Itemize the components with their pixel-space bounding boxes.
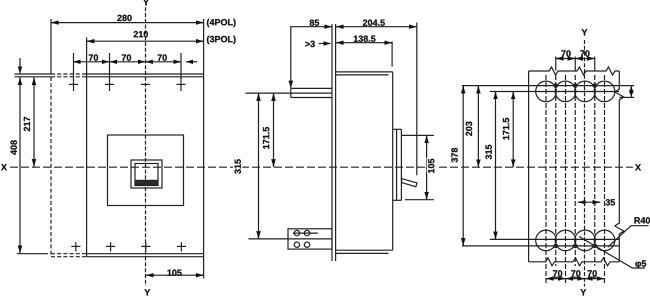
rear view: terminal circle R40 top 4 — [594, 81, 615, 102]
dim 70 bottom line — [546, 278, 605, 280]
rear view: terminal circle R40 top 1 — [536, 81, 557, 102]
label Y top rear — [582, 29, 588, 35]
dim 315 (rear) line — [495, 92, 497, 240]
label Y bottom rear — [580, 289, 586, 295]
dim 105 (side) line — [426, 135, 428, 199]
dim text 70 c — [158, 54, 167, 60]
front view: handle opening inner rect — [135, 164, 158, 186]
side view: terminal cover — [396, 129, 398, 200]
rear view: mounting hole dashed lines — [555, 75, 557, 266]
dim 408 bottom extension line — [17, 253, 48, 255]
label X right — [635, 164, 641, 170]
dim text >3 — [305, 41, 315, 47]
rear view: pole center dashed lines — [545, 75, 547, 285]
rear view: terminal circle R40 bottom 2 — [555, 230, 576, 251]
dim 70 top ticks — [555, 57, 557, 71]
label (4POL) — [207, 19, 236, 27]
dim >3 arrow — [319, 43, 331, 45]
side view: body front face — [392, 72, 394, 250]
dim text 70 rear bottom b — [571, 270, 580, 276]
front view: handle opening outer rect — [131, 160, 162, 188]
dim 203 line — [477, 86, 479, 168]
front view: top mounting strip left extension (4POL terminal strip) — [14, 73, 51, 75]
dim 85 left corner extension with down arrow — [290, 27, 292, 88]
dim 70 top lines — [556, 58, 595, 60]
dim text 408 — [11, 140, 17, 155]
front view: pole extension line P2 — [109, 53, 111, 91]
dim text 70 a — [89, 54, 98, 60]
dim text 210 — [134, 31, 148, 37]
label Y bottom front — [144, 289, 150, 295]
front view: bottom screw crosses — [75, 242, 77, 251]
dim 408 line — [19, 77, 21, 253]
rear view: terminal circle R40 bottom 3 — [575, 230, 596, 251]
label Y top front — [143, 0, 149, 5]
rear view: top center row line (315 extension) — [490, 91, 620, 93]
side view: body top edge — [336, 71, 393, 73]
dim 171.5 (side) line — [273, 93, 275, 167]
front view: top screw cross bars — [69, 83, 78, 85]
dim text 171.5 rear — [503, 118, 509, 140]
rear view: mounting hole dots top — [554, 84, 557, 87]
dim text 85 — [310, 20, 319, 26]
dim text 280 — [117, 15, 131, 21]
rear view: bottom center row line (315 extension) — [490, 238, 620, 240]
front view: bottom edge dashed (4th pole) — [51, 253, 87, 255]
dim text 70 rear top b — [580, 50, 589, 56]
front view: left edge of 3-pole body — [86, 77, 88, 257]
bracket hole 4 — [304, 242, 309, 247]
dim 210 line — [87, 40, 204, 42]
rear view: left edge — [528, 71, 530, 262]
rear view: bottom edge with break marks — [529, 258, 620, 266]
dim text 70 rear bottom c — [588, 270, 597, 276]
rear view: terminal circle R40 bottom 4 — [594, 230, 615, 251]
front view: top edge dashed (4th pole section) — [51, 73, 87, 75]
dim text 171.5 side — [263, 127, 269, 149]
side view: panel plate double line — [331, 24, 333, 261]
rear view: mounting hole dots bottom — [554, 244, 557, 247]
dim 35 line (outside arrows) — [578, 201, 600, 203]
dim 70 lines (pole pitch) — [73, 61, 181, 63]
label phi5 — [635, 260, 646, 268]
bracket hole 3 — [294, 242, 299, 247]
rear view Y axis dashed center line — [584, 40, 586, 287]
dim text 35 — [606, 199, 616, 205]
front view: right edge with dimension extensions — [203, 19, 205, 279]
rear view: terminal strip lower edge right — [619, 96, 634, 98]
rear view: terminal circle R40 top 2 — [555, 81, 576, 102]
dim 408 top outside arrow — [19, 58, 21, 73]
dim text 70 rear bottom a — [553, 270, 562, 276]
dim text 204.5 — [363, 20, 385, 26]
bracket hole 1 — [294, 230, 299, 235]
dim text 378 — [451, 148, 457, 163]
label X left — [1, 164, 7, 170]
dim text 315 rear — [485, 145, 491, 160]
dim 85 line — [290, 26, 332, 28]
front view: pole extension line P1 — [73, 53, 75, 91]
dim 315 (side) line — [258, 93, 260, 239]
dim 70 bottom underlines — [553, 276, 563, 278]
dim 138.5 line — [336, 42, 393, 44]
X axis dashed center line — [10, 166, 633, 168]
R40 leader line — [608, 226, 649, 247]
dim 210 extension line left — [86, 37, 88, 76]
rear view: right edge with break marks — [615, 71, 624, 262]
front view: pole extension line P4 — [180, 53, 182, 91]
front view: escutcheon plate rectangle — [108, 135, 184, 206]
dim text 70 rear top a — [561, 50, 570, 56]
front view Y axis dashed center line — [145, 7, 147, 286]
bracket mid extension line — [249, 238, 333, 240]
phi5 leader line — [579, 237, 645, 269]
dim 204.5 extension line — [416, 23, 418, 176]
rear view: terminal circle R40 top 3 — [575, 81, 596, 102]
side view: handle escutcheon slab — [291, 87, 332, 89]
stray outside arrow right of P4 — [186, 61, 197, 63]
front view: top edge solid (3 pole body) — [87, 73, 204, 75]
dim 138.5 extension line — [391, 42, 393, 67]
side view: mounting bracket — [288, 229, 332, 249]
dim text 70 b — [122, 54, 131, 60]
front view: handle bar (filled) — [135, 180, 157, 185]
dim 204.5 line — [336, 26, 417, 28]
dim text 138.5 — [354, 36, 376, 42]
rear view: bottom hole row line (378 extension) — [462, 245, 619, 247]
side view: terminal screw tab — [401, 179, 417, 187]
rear view: top edge with break marks — [529, 67, 620, 75]
rear view: top hole row line (378 extension) — [462, 85, 634, 87]
dim 217 line — [33, 77, 35, 167]
dim 378 line — [462, 86, 464, 246]
front view: dashed left edge of 4th pole — [50, 77, 52, 257]
bracket slot line — [293, 232, 318, 234]
dim text 105 side — [428, 159, 434, 173]
dim 105 (front bottom) line — [146, 274, 204, 276]
rear view: terminal circle R40 bottom 1 — [536, 230, 557, 251]
side view: escutcheon mid extension line — [246, 92, 333, 94]
front view: bottom edge solid — [87, 253, 204, 255]
dim 280 line — [51, 22, 204, 24]
bracket hole 2 — [304, 230, 309, 235]
dim text 217 — [24, 117, 30, 131]
dim text 315 side — [235, 159, 241, 174]
dim 105 (side) extension lines — [402, 134, 434, 136]
dim text 203 — [466, 122, 472, 136]
rear view: strip thickness arrows — [630, 86, 632, 91]
dim 171.5 (rear) line — [512, 92, 514, 168]
dim text 105 front — [167, 270, 181, 276]
side view: body bottom edge — [336, 249, 393, 251]
dim 280 extension line left — [50, 19, 52, 74]
label (3POL) — [207, 36, 236, 44]
label R40 — [635, 217, 650, 223]
